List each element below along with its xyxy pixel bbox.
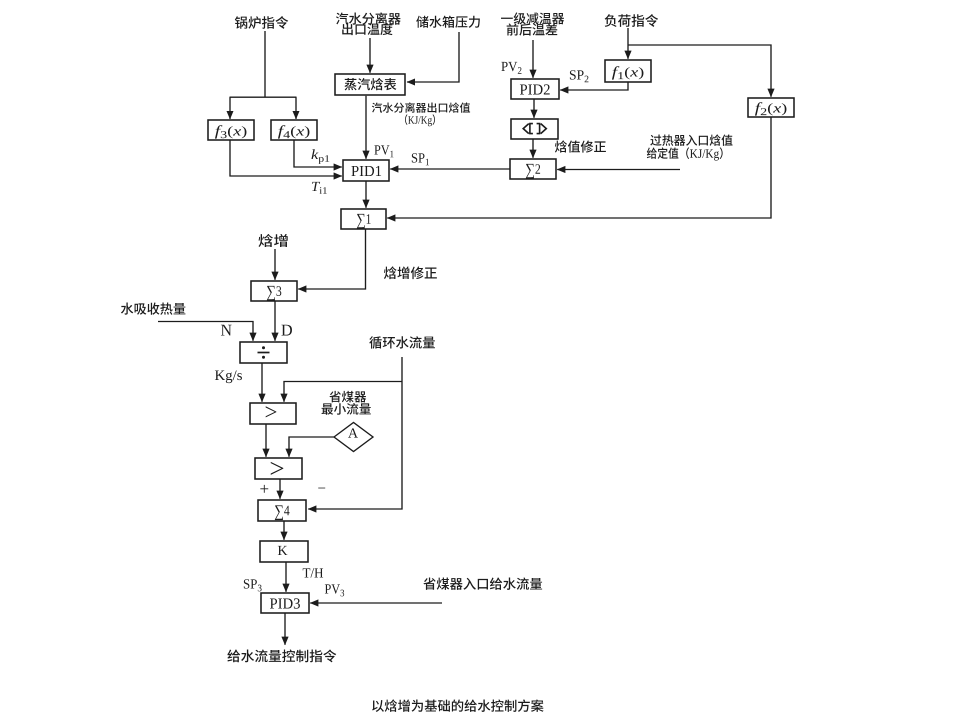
label + sign bbox=[260, 485, 268, 493]
text A bbox=[348, 428, 358, 437]
wire PID3 output down bbox=[284, 613, 286, 645]
text ÷ symbol bbox=[258, 352, 270, 354]
wire A out into >2 bbox=[289, 437, 335, 457]
controller PID3 bbox=[261, 593, 309, 613]
function block f1(x) bbox=[605, 60, 651, 82]
label 给水流量控制指令 bbox=[227, 649, 336, 662]
wire SP1 from Σ2 into PID1 bbox=[390, 168, 510, 170]
label T/H bbox=[303, 568, 323, 577]
wire Σ1 out 焓增修正 into Σ3 bbox=[298, 229, 365, 289]
max selector >2 bbox=[255, 458, 302, 479]
limiter symbol <[ ]> bbox=[523, 124, 546, 134]
text PID3 bbox=[270, 598, 300, 608]
label 汽水分离器 line1 bbox=[336, 12, 401, 24]
wire 蒸汽焓表 out PV1 into PID1 bbox=[365, 96, 367, 159]
label 储水箱压力 bbox=[416, 16, 480, 28]
label （KJ/Kg） bbox=[405, 114, 435, 126]
wire >2 out into Σ4 bbox=[279, 479, 281, 499]
text Σ3 bbox=[267, 286, 281, 301]
summer Σ4 bbox=[258, 500, 306, 521]
label 焓增修正 bbox=[384, 266, 437, 279]
label 锅炉指令 (boiler command) bbox=[235, 16, 288, 29]
wire 循环水流量 down to Σ4 minus bbox=[308, 357, 402, 509]
wire branch horizontal to f3/f4 bbox=[230, 96, 297, 98]
label 循环水流量 bbox=[369, 336, 435, 349]
wire 负荷指令 branch to f2(x) bbox=[628, 45, 771, 97]
label 省煤器入口给水流量 bbox=[423, 578, 542, 590]
controller PID2 bbox=[511, 79, 559, 99]
label 前后温差 line2 bbox=[507, 23, 558, 35]
wire 焓增 into Σ3 bbox=[274, 249, 276, 280]
label 水吸收热量 bbox=[121, 303, 186, 315]
label PV2 bbox=[501, 62, 521, 74]
wire 负荷指令 stem into f1(x) bbox=[627, 28, 629, 59]
wire 锅炉指令 stem down bbox=[264, 31, 266, 97]
label PV3 bbox=[325, 584, 344, 596]
wire 前后温差 PV2 into PID2 bbox=[532, 40, 534, 78]
text >1 symbol bbox=[266, 406, 277, 417]
wire f3 out Ti1 into PID1 bbox=[230, 140, 342, 176]
wire into f4(x) bbox=[295, 97, 297, 119]
wire ÷ out Kg/s into >1 bbox=[261, 363, 263, 402]
wire >1 out into >2 bbox=[265, 424, 267, 457]
text Σ4 bbox=[275, 505, 290, 520]
label − sign bbox=[318, 487, 325, 490]
label 汽水分离器出口焓值 bbox=[372, 102, 470, 112]
text f3(x) bbox=[215, 125, 246, 138]
gain block K bbox=[260, 541, 308, 562]
summer Σ2 bbox=[510, 159, 556, 179]
label 焓增 bbox=[259, 234, 288, 247]
caption 以焓增为基础的给水控制方案 bbox=[372, 699, 543, 712]
label 出口温度 line2 bbox=[342, 23, 392, 35]
controller PID1 bbox=[343, 160, 389, 181]
function block f3(x) bbox=[208, 120, 254, 140]
constant block A (diamond) bbox=[334, 423, 373, 452]
summer Σ1 bbox=[341, 209, 386, 229]
text >2 symbol bbox=[271, 462, 284, 475]
wire 给定值 into Σ2 bbox=[557, 169, 680, 171]
label 给定值（KJ/Kg） bbox=[647, 147, 723, 160]
label 省煤器 line1 bbox=[329, 391, 366, 403]
wire 储水箱压力 into 蒸汽焓表 bbox=[407, 32, 459, 82]
label SP1 bbox=[412, 153, 429, 165]
text Σ1 bbox=[357, 214, 371, 229]
label 过热器入口焓值 bbox=[650, 134, 732, 145]
wire f4 out kp1 into PID1 bbox=[294, 140, 342, 167]
label D bbox=[281, 325, 291, 336]
label PV1 bbox=[374, 145, 393, 157]
label Ti1 bbox=[312, 182, 327, 194]
wire f1 out SP2 into PID2 bbox=[560, 82, 628, 90]
text PID1 bbox=[351, 166, 381, 176]
wire Σ4 out into K bbox=[283, 521, 285, 540]
wire PID1 out into Σ1 bbox=[365, 181, 367, 208]
block 蒸汽焓表 (steam enthalpy table) bbox=[335, 74, 405, 95]
label 最小流量 line2 bbox=[322, 403, 371, 415]
max selector >1 bbox=[250, 403, 296, 424]
wire PID2 out into limiter bbox=[533, 99, 535, 118]
wire 汽水分离器出口温度 into 蒸汽焓表 bbox=[369, 38, 371, 73]
label 焓值修正 bbox=[555, 140, 606, 152]
text Σ2 bbox=[526, 164, 540, 179]
wire limiter out into Σ2 bbox=[532, 139, 534, 158]
label kp1 bbox=[311, 149, 329, 164]
limiter block (high/low limit) bbox=[511, 119, 558, 139]
label SP3 bbox=[244, 579, 262, 591]
wire branch into >1 bbox=[284, 382, 402, 402]
wire K out into PID3 bbox=[285, 562, 287, 592]
label N bbox=[221, 325, 232, 336]
text K bbox=[278, 546, 288, 555]
label 负荷指令 (load command) bbox=[605, 14, 659, 27]
wire f2 out into Σ1 bbox=[387, 117, 771, 218]
text f4(x) bbox=[278, 125, 309, 138]
wire into f3(x) bbox=[229, 97, 231, 119]
wire 省煤器入口给水流量 PV3 into PID3 bbox=[310, 602, 442, 604]
function block f2(x) bbox=[748, 98, 794, 117]
divider block ÷ bbox=[240, 342, 287, 363]
label 一级减温器 line1 bbox=[501, 12, 564, 24]
text 蒸汽焓表 bbox=[345, 78, 397, 90]
function block f4(x) bbox=[271, 120, 317, 140]
text f1(x) bbox=[612, 66, 643, 79]
text f2(x) bbox=[755, 102, 786, 115]
summer Σ3 bbox=[251, 281, 297, 301]
wire 水吸收热量 N into ÷ bbox=[158, 322, 253, 341]
text PID2 bbox=[520, 84, 550, 94]
wire Σ3 out D into ÷ bbox=[274, 301, 276, 341]
label Kg/s bbox=[215, 370, 242, 383]
label SP2 bbox=[570, 70, 589, 82]
